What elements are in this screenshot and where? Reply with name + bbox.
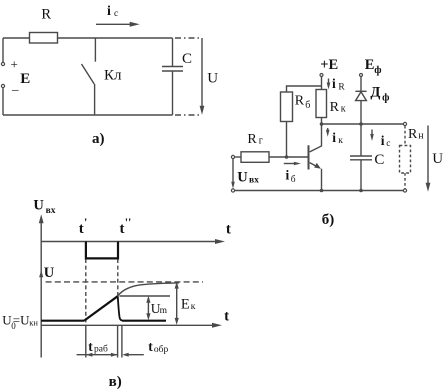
svg-text:U: U bbox=[237, 170, 248, 186]
svg-text:i: i bbox=[107, 4, 111, 19]
svg-text:к: к bbox=[338, 136, 343, 146]
label +E bbox=[320, 57, 338, 73]
axis t (bottom graph) bbox=[41, 323, 222, 328]
wire bottom rail (a) bbox=[3, 114, 173, 116]
label U (second graph) bbox=[44, 265, 55, 281]
svg-text:R: R bbox=[338, 83, 345, 93]
svg-text:': ' bbox=[84, 215, 87, 229]
svg-text:R: R bbox=[330, 100, 340, 115]
svg-text:t: t bbox=[226, 221, 231, 237]
label Uвх (b) bbox=[237, 170, 259, 186]
svg-text:U: U bbox=[44, 265, 55, 281]
arrow current i_к bbox=[326, 128, 330, 137]
arrow voltage U (a) bbox=[200, 38, 205, 115]
label i_c (b) bbox=[381, 133, 391, 149]
svg-text:н: н bbox=[418, 131, 424, 142]
label i_c (a) bbox=[107, 4, 118, 19]
label Uвх (axis) bbox=[33, 198, 55, 217]
svg-text:t: t bbox=[148, 339, 153, 354]
arrow Eк double bbox=[175, 282, 179, 325]
dashed vertical t' bbox=[85, 259, 87, 325]
svg-text:i: i bbox=[381, 133, 385, 148]
svg-text:E: E bbox=[181, 296, 190, 312]
svg-text:кн: кн bbox=[29, 318, 38, 328]
dashed vertical t'' bbox=[117, 259, 119, 296]
svg-text:=U: =U bbox=[13, 313, 30, 328]
wire left rail lower (a) bbox=[2, 88, 4, 115]
svg-text:U: U bbox=[432, 151, 443, 167]
svg-text:б): б) bbox=[322, 212, 335, 228]
svg-text:в): в) bbox=[109, 374, 122, 390]
wire diode to collector rail bbox=[360, 101, 362, 124]
svg-text:+E: +E bbox=[320, 57, 338, 73]
svg-text:t: t bbox=[88, 339, 93, 354]
waveform baseline right (thick) bbox=[122, 320, 166, 322]
svg-text:R: R bbox=[408, 127, 418, 142]
label Rг bbox=[247, 132, 263, 147]
terminal Rn bottom bbox=[403, 189, 406, 192]
label в) bbox=[109, 374, 122, 390]
terminal input bottom bbox=[231, 189, 234, 192]
svg-text:+: + bbox=[11, 57, 18, 72]
svg-text:R: R bbox=[295, 94, 305, 109]
waveform baseline left (thick) bbox=[41, 320, 84, 322]
svg-text:C: C bbox=[374, 152, 384, 168]
label Кл bbox=[104, 68, 122, 84]
transistor VT base bar bbox=[308, 145, 310, 169]
svg-text:к: к bbox=[341, 104, 346, 115]
label E bbox=[20, 71, 30, 87]
svg-text:U: U bbox=[33, 198, 44, 214]
wire +E branch to Rb bbox=[287, 86, 322, 92]
capacitor C (a) bbox=[162, 38, 183, 115]
transistor collector lead bbox=[310, 124, 322, 152]
resistor R bbox=[30, 33, 58, 44]
svg-text:к: к bbox=[191, 302, 196, 312]
dashed level Eк bbox=[46, 281, 203, 283]
label C (a) bbox=[182, 51, 192, 67]
pulse Uвх (thick) bbox=[86, 242, 118, 259]
svg-text:ф: ф bbox=[382, 92, 389, 103]
resistor Rk bbox=[316, 90, 327, 118]
axis vertical Uвх/U bbox=[39, 214, 44, 357]
svg-text:а): а) bbox=[92, 131, 105, 147]
label C (b) bbox=[374, 152, 384, 168]
label - bbox=[11, 82, 19, 97]
svg-text:C: C bbox=[182, 51, 192, 67]
label i_б bbox=[286, 168, 296, 186]
line Um top reference bbox=[120, 295, 171, 297]
svg-text:i: i bbox=[286, 168, 290, 183]
svg-text:R: R bbox=[41, 7, 51, 23]
source E terminal - bbox=[1, 84, 4, 87]
svg-text:c: c bbox=[386, 139, 390, 149]
svg-text:вх: вх bbox=[46, 206, 56, 216]
capacitor C (b) bbox=[350, 124, 372, 191]
terminal +E bbox=[320, 74, 323, 77]
arrow Uвх direction bbox=[231, 159, 235, 189]
measure t_раб arrows bbox=[77, 353, 118, 357]
svg-text:обр: обр bbox=[154, 344, 169, 355]
svg-text:ф: ф bbox=[374, 65, 381, 76]
axis arrow U (second graph) bbox=[39, 270, 43, 277]
label Eф bbox=[365, 57, 382, 76]
transistor emitter lead with arrow bbox=[310, 163, 322, 191]
arrow current i_c (a) bbox=[96, 22, 140, 27]
wire collector rail horizontal bbox=[322, 123, 404, 125]
waveform ramp (thick) bbox=[84, 296, 118, 320]
label Дф bbox=[370, 84, 389, 103]
svg-text:вх: вх bbox=[249, 175, 259, 185]
waveform drop (thick) bbox=[118, 296, 122, 320]
wire Eф to diode bbox=[360, 77, 362, 92]
label t (bottom axis) bbox=[224, 309, 229, 325]
measure t_обр arrow bbox=[122, 353, 144, 357]
svg-text:R: R bbox=[247, 132, 257, 147]
label б) bbox=[322, 212, 335, 228]
svg-text:U: U bbox=[207, 70, 218, 86]
arrow current i_c (b) bbox=[370, 130, 374, 142]
arrow current i_б bbox=[284, 162, 301, 166]
svg-text:m: m bbox=[160, 306, 168, 316]
svg-text:б: б bbox=[305, 100, 310, 111]
wire bottom rail (b) bbox=[235, 190, 404, 192]
terminal Rn top bbox=[403, 122, 406, 125]
wire base node bbox=[269, 156, 309, 158]
wire input to Rг bbox=[235, 156, 241, 158]
label Eк bbox=[181, 296, 196, 312]
svg-text:г: г bbox=[259, 135, 263, 146]
wire left rail upper (a) bbox=[2, 38, 4, 62]
diode Дф bbox=[355, 91, 366, 100]
resistor Rb bbox=[281, 92, 293, 122]
arrow current i_R bbox=[327, 79, 331, 90]
svg-text:E: E bbox=[20, 71, 30, 87]
node emitter bottom junction bbox=[320, 189, 324, 193]
label Rк bbox=[330, 100, 346, 115]
wire +E to Rk bbox=[321, 77, 323, 90]
wire dashed top extension (a) bbox=[175, 37, 199, 39]
svg-text:Д: Д bbox=[370, 84, 380, 100]
label Rб bbox=[295, 94, 311, 112]
node diode/C junction bbox=[359, 122, 363, 126]
svg-text:–: – bbox=[11, 82, 19, 97]
label U (b) bbox=[432, 151, 443, 167]
wire top rail (a) bbox=[3, 37, 173, 39]
label Rн bbox=[408, 127, 424, 142]
tick below axis at drop end bbox=[121, 325, 123, 357]
svg-text:c: c bbox=[114, 9, 118, 19]
svg-text:t: t bbox=[224, 309, 229, 325]
wire Rb bottom to base node bbox=[286, 122, 288, 158]
label t' bbox=[79, 215, 88, 237]
node C bottom junction bbox=[359, 189, 363, 193]
label U (a) bbox=[207, 70, 218, 86]
label R bbox=[41, 7, 51, 23]
source E terminal + bbox=[1, 62, 4, 65]
resistor Rг bbox=[241, 152, 269, 163]
node base/Rb junction bbox=[285, 155, 289, 159]
svg-text:Кл: Кл bbox=[104, 68, 122, 84]
resistor Rn dashed bbox=[400, 126, 411, 189]
svg-text:'': '' bbox=[125, 215, 132, 229]
svg-text:б: б bbox=[291, 174, 296, 185]
svg-text:i: i bbox=[332, 76, 336, 91]
svg-text:i: i bbox=[332, 130, 336, 145]
label i_R bbox=[332, 76, 345, 93]
label U0=Uкн bbox=[2, 313, 38, 331]
label Um bbox=[151, 301, 168, 316]
label t (top axis) bbox=[226, 221, 231, 237]
svg-text:E: E bbox=[365, 57, 375, 73]
svg-text:раб: раб bbox=[94, 344, 108, 355]
label i_к bbox=[332, 130, 343, 146]
node collector/Rk junction bbox=[320, 122, 324, 126]
arrow voltage U (b) bbox=[426, 126, 431, 192]
arrow Um double bbox=[146, 296, 150, 320]
terminal input top bbox=[231, 155, 234, 158]
axis t (top graph) bbox=[41, 239, 225, 244]
tick below axis at t' bbox=[85, 325, 87, 357]
label t_раб bbox=[88, 339, 108, 355]
curve exponential rise (thin) bbox=[118, 283, 179, 296]
switch Кл bbox=[82, 38, 96, 115]
terminal Eф bbox=[360, 74, 363, 77]
tick below axis at drop start bbox=[117, 325, 119, 357]
label t'' bbox=[120, 215, 132, 237]
wire dashed bottom extension (a) bbox=[175, 114, 199, 116]
label а) bbox=[92, 131, 105, 147]
wire Rk bottom to collector node bbox=[321, 118, 323, 125]
label + bbox=[11, 57, 18, 72]
label t_обр bbox=[148, 339, 168, 355]
